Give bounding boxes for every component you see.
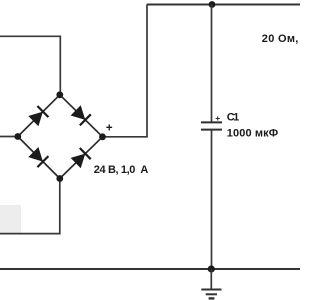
wire capacitor bottom lead <box>211 130 213 269</box>
wire bridge arm left-bottom <box>18 137 60 179</box>
svg-text:1000 мкФ: 1000 мкФ <box>227 128 278 140</box>
ground symbol <box>201 269 221 298</box>
node bridge bottom <box>56 175 63 182</box>
wire AC input left (left edge to bridge left node) <box>0 136 18 138</box>
watermark gray square <box>0 205 21 233</box>
wire positive output (bridge right node up to top rail) <box>103 5 148 137</box>
svg-text:20 Ом,: 20 Ом, <box>262 33 299 45</box>
node junction dot on top rail <box>209 1 216 8</box>
svg-text:+: + <box>215 113 220 123</box>
node junction dot on bottom rail <box>208 265 215 272</box>
diode D3 (left node to bottom node) <box>28 147 48 167</box>
wire bridge arm top-right <box>60 95 103 137</box>
diode D2 (top node to right node) <box>71 105 91 125</box>
diode D4 (bottom node to right node) <box>71 148 91 168</box>
wire bottom rail <box>0 268 300 270</box>
svg-text:+: + <box>106 123 113 135</box>
wire bridge arm bottom-right <box>60 137 103 179</box>
wire AC input upper (left edge to bridge top) <box>0 36 60 95</box>
wire negative (bridge bottom node down and left edge) <box>0 179 60 234</box>
wire top rail <box>147 3 300 5</box>
node bridge left <box>14 133 21 140</box>
svg-text:C1: C1 <box>227 111 240 123</box>
diode D1 (left node to top node) <box>28 106 48 126</box>
svg-text:24 В, 1,0 А: 24 В, 1,0 А <box>94 164 149 176</box>
node bridge right (+) <box>99 133 106 140</box>
wire capacitor top lead <box>211 5 213 123</box>
capacitor C1 top plate <box>201 121 222 123</box>
wire bridge arm left-top <box>18 95 60 137</box>
node bridge top <box>56 91 63 98</box>
capacitor C1 bottom plate <box>201 129 222 131</box>
